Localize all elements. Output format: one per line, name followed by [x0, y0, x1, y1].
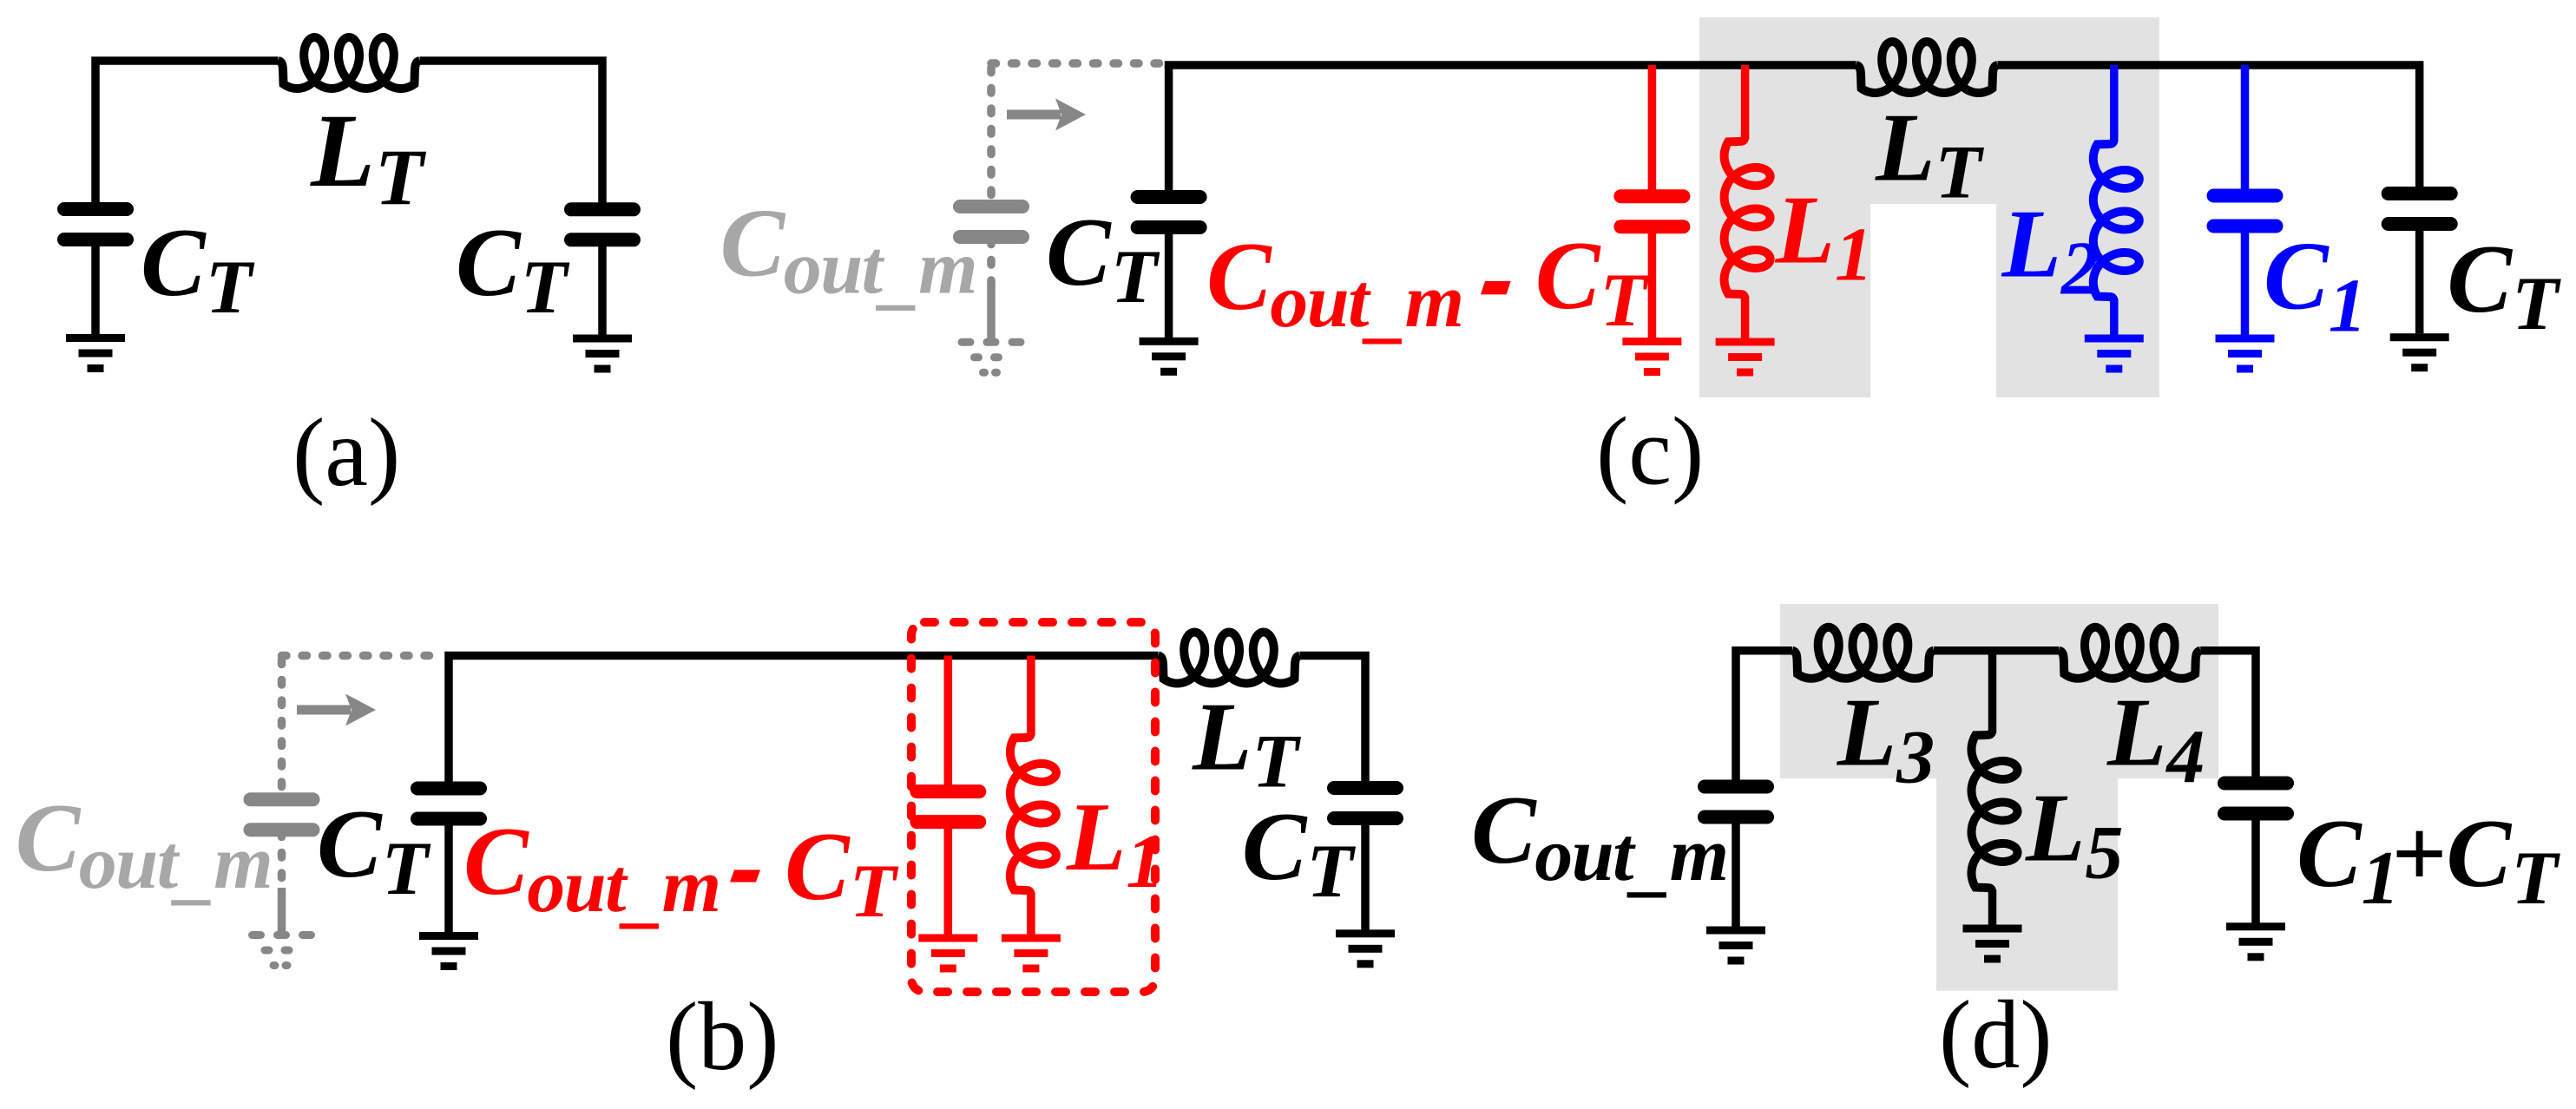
svg-text:(b): (b)	[666, 983, 779, 1091]
svg-text:(d): (d)	[1939, 981, 2053, 1089]
svg-text:(a): (a)	[292, 399, 400, 507]
svg-text:(c): (c)	[1596, 398, 1704, 506]
